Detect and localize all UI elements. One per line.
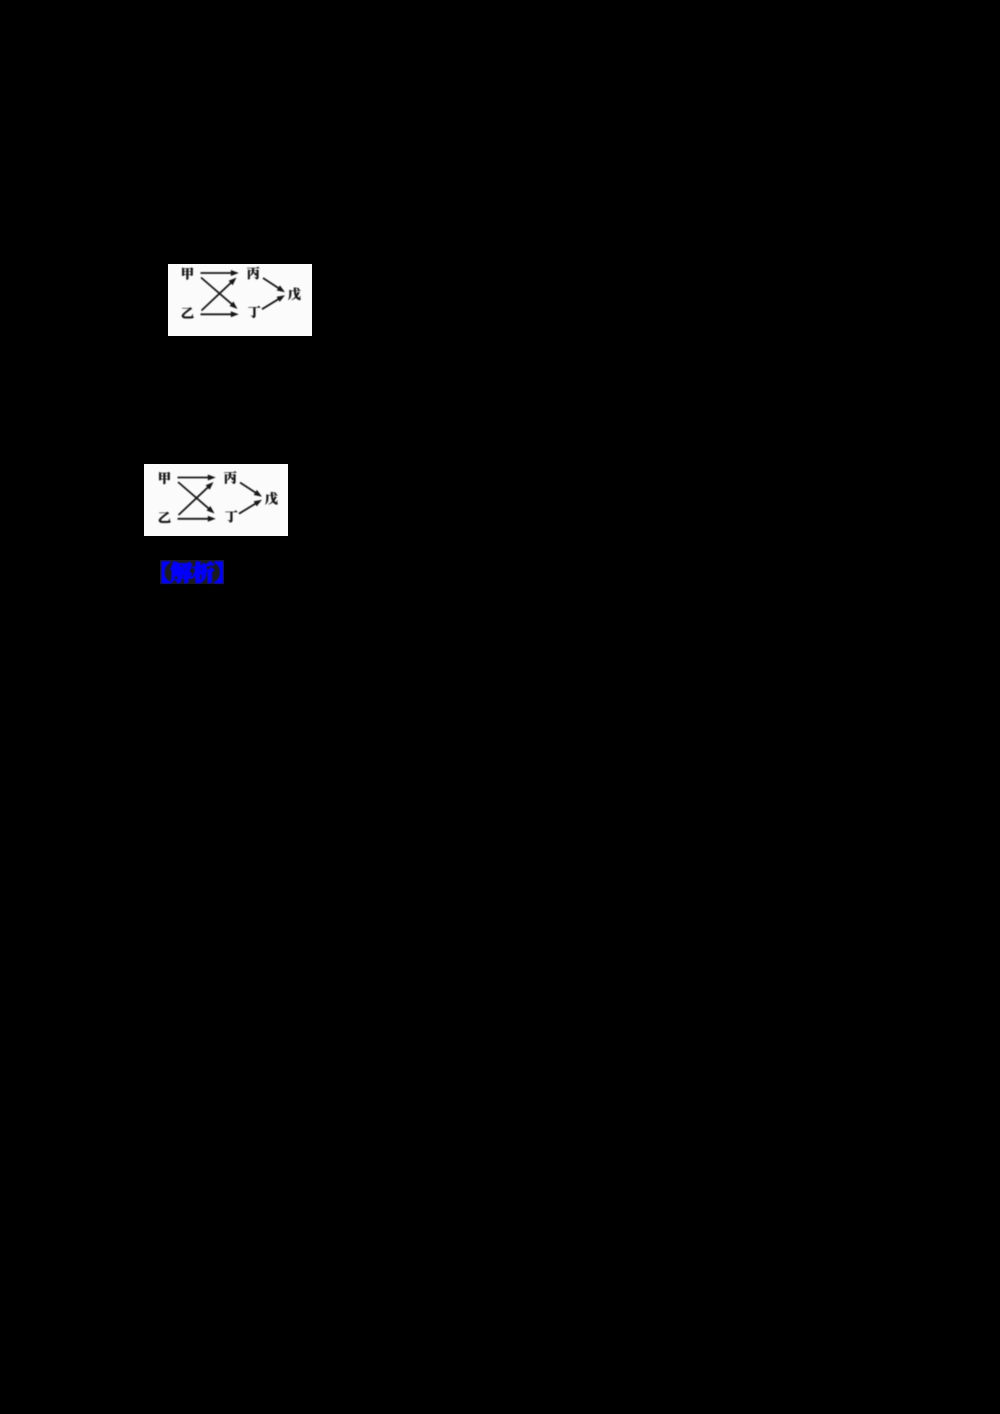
node bing 丙 (box1) (247, 267, 259, 280)
arrow jia-to-bing (box1) (201, 272, 232, 274)
food-web diagram box 1 (168, 264, 312, 336)
node ding 丁 (box2) (225, 510, 237, 522)
node jia 甲 (box2) (159, 472, 170, 484)
highlight box behind label (160, 560, 225, 585)
arrow yi-to-ding (box1) (201, 313, 232, 315)
arrow bing-to-wu (box2) (240, 483, 256, 494)
arrow jia-to-bing (box2) (178, 477, 209, 479)
node wu 戊 (box1) (288, 288, 301, 301)
arrow yi-to-bing (box1) (202, 282, 232, 310)
node yi 乙 (box2) (159, 512, 171, 523)
food-web diagram box 2 (144, 464, 288, 536)
arrow yi-to-bing (box2) (179, 487, 209, 515)
node yi 乙 (box1) (182, 307, 194, 318)
arrow jia-to-ding (box1) (201, 278, 232, 305)
node bing 丙 (box2) (224, 471, 236, 484)
arrow bing-to-wu (box1) (263, 278, 279, 289)
arrow ding-to-wu (box1) (262, 299, 279, 309)
label 【解析】 blue (130, 550, 430, 610)
arrow yi-to-ding (box2) (178, 518, 209, 520)
arrow ding-to-wu (box2) (239, 503, 256, 513)
node ding 丁 (box1) (248, 306, 260, 318)
arrow jia-to-ding (box2) (178, 482, 209, 509)
node jia 甲 (box1) (182, 267, 193, 279)
node wu 戊 (box2) (265, 492, 278, 505)
